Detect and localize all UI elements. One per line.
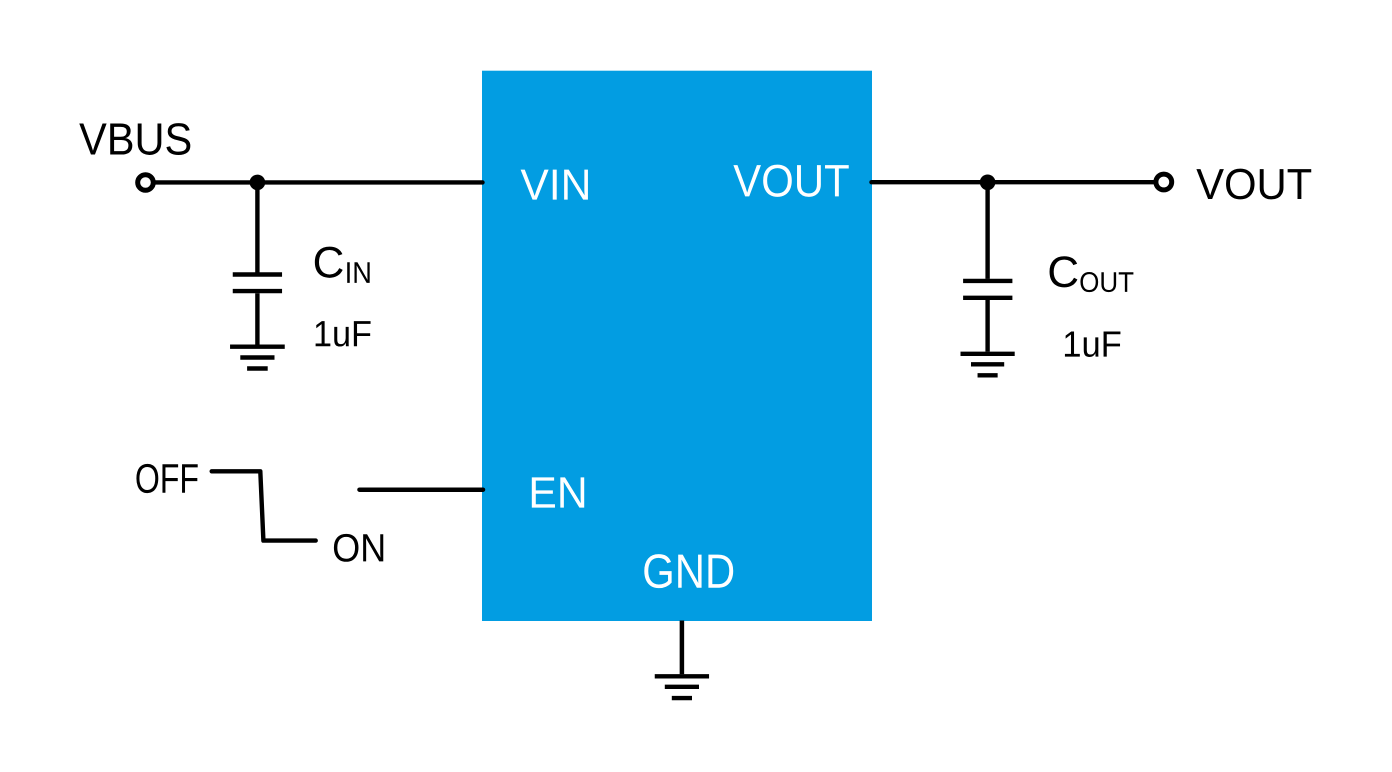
capacitor C_IN	[233, 275, 282, 345]
wire VBUS to VIN	[154, 180, 483, 184]
junction at CIN	[250, 175, 266, 191]
switch waveform OFF to ON	[212, 471, 316, 540]
wire GND stub	[680, 621, 685, 675]
ground below C_OUT	[961, 354, 1015, 376]
terminal VBUS	[138, 175, 154, 191]
pin label VIN	[521, 170, 588, 200]
ground below C_IN	[230, 347, 285, 369]
label C_OUT	[1050, 256, 1134, 292]
label ON	[334, 534, 383, 562]
pin label EN	[532, 477, 584, 507]
IC U1 (LDO regulator block)	[482, 71, 872, 621]
wire VOUT to terminal	[872, 180, 1155, 184]
wire junction to COUT	[985, 182, 989, 279]
capacitor C_OUT	[963, 281, 1012, 352]
value 1uF (C_OUT)	[1065, 331, 1120, 356]
label C_IN	[315, 247, 370, 283]
node VBUS label	[79, 123, 190, 155]
pin label GND	[644, 554, 733, 588]
ground below GND pin	[655, 676, 709, 698]
wire to EN	[360, 487, 484, 492]
terminal VOUT	[1156, 174, 1172, 190]
wire junction to CIN	[255, 182, 259, 272]
junction at COUT	[980, 175, 996, 191]
value 1uF (C_IN)	[316, 321, 371, 346]
label OFF	[136, 464, 197, 493]
pin label VOUT	[733, 165, 848, 197]
node VOUT label	[1196, 169, 1311, 200]
